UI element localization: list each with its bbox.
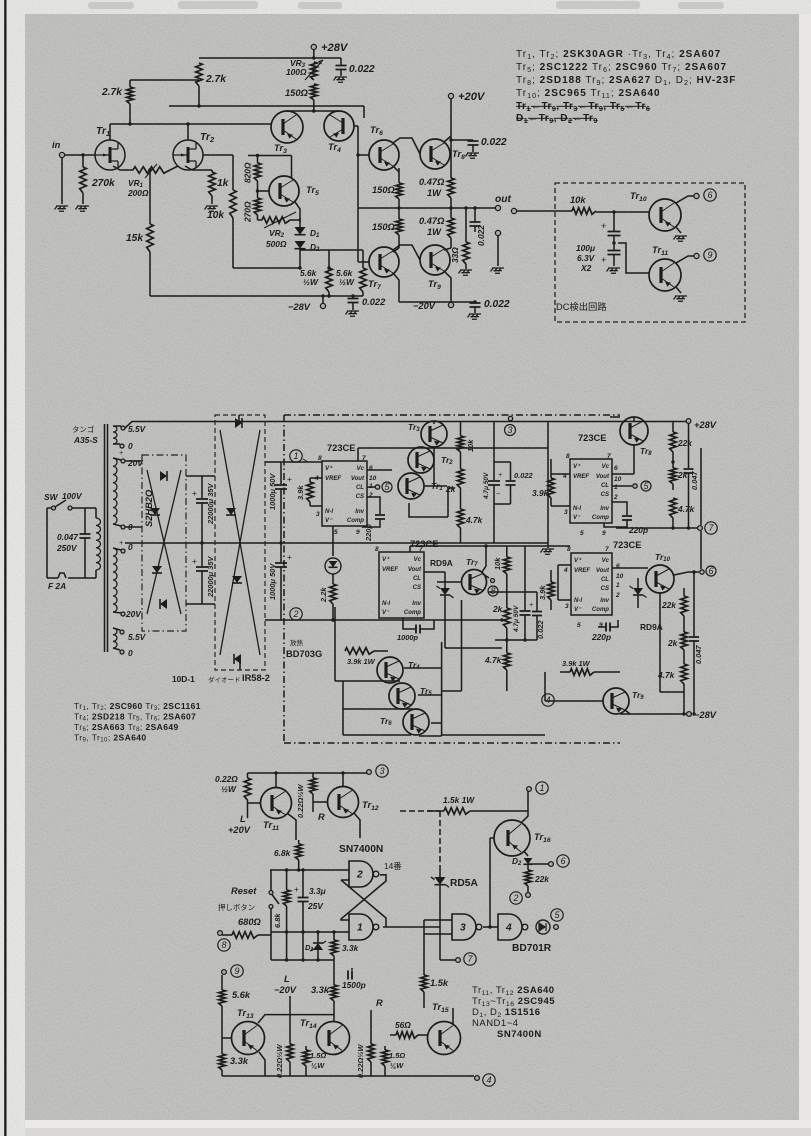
svg-text:2k: 2k (445, 484, 456, 494)
transistor PSU Tr2 (408, 447, 434, 473)
svg-text:20V: 20V (125, 609, 142, 619)
svg-text:3.3μ: 3.3μ (309, 886, 326, 896)
svg-text:CS: CS (413, 585, 421, 591)
transistor Tr10 (649, 199, 681, 231)
svg-text:CL: CL (356, 485, 364, 491)
capacitor 220p upper (612, 502, 627, 515)
top rail y=424 to +28V (248, 421, 688, 423)
svg-text:Inv: Inv (412, 601, 421, 607)
wire Tr7 base from x358 (357, 208, 359, 262)
wire Tr11 base/emitter legs (248, 802, 262, 804)
wire Tr6 base (358, 154, 369, 156)
svg-text:Tr1: Tr1 (96, 126, 110, 138)
wire hook down at x=364 (363, 106, 365, 118)
resistor 15k (147, 224, 154, 252)
svg-text:0.22Ω½W: 0.22Ω½W (296, 784, 305, 818)
svg-text:0.047: 0.047 (694, 645, 703, 664)
svg-text:1.5k 1W: 1.5k 1W (443, 795, 475, 805)
right rail x=701 (700, 448, 702, 525)
wire node4 dash (542, 694, 554, 706)
wire Tr5 base (258, 190, 270, 192)
resistor 4.7k right upper (670, 498, 677, 518)
svg-text:10k: 10k (466, 439, 475, 452)
svg-text:33Ω: 33Ω (450, 247, 460, 263)
resistor 4.7k lower right (681, 664, 688, 684)
svg-text:0.047: 0.047 (690, 471, 699, 490)
svg-text:22k: 22k (661, 600, 676, 610)
wire IC1 left pins (310, 477, 322, 479)
transistor PSU Tr10 (646, 565, 674, 593)
svg-text:10k: 10k (570, 195, 586, 205)
transistor PSU Tr7 (462, 570, 487, 595)
svg-text:6: 6 (616, 563, 620, 570)
svg-text:L: L (284, 974, 290, 984)
svg-text:5: 5 (580, 530, 584, 537)
svg-text:+: + (601, 221, 606, 231)
wire node4 bottom (470, 1075, 474, 1077)
resistor 4.7k lower-left (504, 653, 511, 670)
svg-text:2k: 2k (492, 604, 503, 614)
diode D1 (299, 218, 301, 227)
resistor 2k psu left (457, 469, 464, 488)
bridge2 diode network (220, 430, 260, 655)
svg-text:6: 6 (614, 465, 618, 472)
wire Tr5 emitter to diode column (295, 202, 300, 222)
capacitor 1000p at IC3 (403, 618, 416, 629)
wire Tr9 emitter to -28V rail (625, 710, 630, 714)
wire psu lower-left cluster (334, 607, 336, 681)
svg-text:10: 10 (616, 573, 624, 580)
wire Tr7 collector to Tr9 base (393, 245, 420, 260)
wire Tr8 to rail (633, 417, 635, 422)
svg-text:0.022: 0.022 (481, 137, 507, 148)
wire Tr10 collector to pin6 (676, 196, 694, 203)
svg-text:9: 9 (602, 530, 606, 537)
terminal node5 at IC1 (367, 486, 375, 488)
wire y546 rail (410, 545, 570, 547)
electrolytic 4.7u 50V upper (493, 422, 495, 463)
svg-text:3.3k: 3.3k (230, 1056, 249, 1066)
resistor 3.3k bottom left (221, 1050, 223, 1054)
NAND gate 3 (452, 914, 476, 940)
resistor 3.9k at IC1 (309, 478, 311, 482)
capacitor 0.047 250V line filter (84, 508, 86, 534)
wire Tr6 emitter to 150 (393, 166, 399, 172)
wire Tr8 collector (444, 136, 451, 142)
svg-text:Comp: Comp (592, 607, 609, 613)
resistor 22k psu right upper (672, 422, 674, 433)
svg-text:250V: 250V (56, 543, 78, 553)
wire Tr1 drain up (109, 124, 111, 140)
diode D2 (295, 241, 306, 249)
svg-text:2k: 2k (667, 638, 678, 648)
wire Tr9 emitter down (444, 271, 451, 302)
zener D1 prot (317, 932, 319, 943)
regulator area dash-dot boundary top (284, 414, 620, 416)
svg-text:1.5k: 1.5k (430, 978, 449, 988)
bottom negative rail y=296 (150, 295, 363, 297)
resistor 10k DC det (572, 208, 596, 215)
svg-text:0.022: 0.022 (349, 64, 375, 75)
svg-text:3.3k: 3.3k (311, 985, 330, 995)
fuse F 2A (58, 573, 66, 578)
wire bridge2 out top (265, 461, 281, 463)
node 1 wire (281, 461, 322, 463)
AC input circuit box (46, 508, 48, 578)
svg-text:+: + (294, 884, 299, 894)
resistor 0.47 ohm 1W lower (448, 218, 455, 238)
wire Tr13 base leg (222, 1038, 232, 1050)
terminal node2 bottom (526, 893, 531, 898)
ground Tr10 emitter (676, 227, 681, 233)
capacitor 0.022 output zobel (474, 208, 476, 222)
svg-text:56Ω: 56Ω (395, 1020, 411, 1030)
svg-text:+: + (119, 538, 123, 547)
svg-text:3: 3 (507, 425, 512, 435)
svg-text:DC検出回路: DC検出回路 (556, 301, 607, 312)
transistor Tr7 (369, 247, 399, 277)
svg-text:Tr1, Tr2; 2SK30AGR ·Tr3, Tr4;: Tr1, Tr2; 2SK30AGR ·Tr3, Tr4; 2SA607 (516, 49, 721, 61)
zener RD5A (439, 868, 441, 877)
svg-text:2k: 2k (677, 470, 688, 480)
svg-text:6: 6 (369, 465, 373, 472)
svg-text:A35-S: A35-S (73, 435, 98, 445)
wire y=106 bus (169, 105, 364, 107)
svg-text:Reset: Reset (231, 886, 257, 896)
cross-coupling wires (341, 875, 386, 920)
svg-text:+: + (192, 488, 197, 498)
wire Tr11 base (618, 243, 649, 273)
wire lower bus y=592 (488, 591, 525, 593)
svg-text:Vout: Vout (596, 474, 610, 480)
wire Tr4 right to x358 (354, 125, 358, 127)
svg-text:Tr5; 2SC1222 Tr6; 2SC960 Tr7: Tr5; 2SC1222 Tr6; 2SC960 Tr7; 2SA607 (516, 62, 727, 74)
capacitor 220p at IC1 (367, 497, 380, 514)
wire Tr15 collector up (452, 1008, 454, 1024)
svg-text:+: + (601, 255, 606, 265)
svg-text:X2: X2 (580, 263, 592, 273)
transistor Tr14 (317, 1022, 350, 1055)
svg-text:7: 7 (605, 546, 609, 553)
svg-text:22000μ 35V: 22000μ 35V (206, 482, 215, 525)
wire NAND1 output right (383, 926, 440, 928)
svg-text:+28V: +28V (694, 420, 717, 430)
FET Tr1 (95, 140, 125, 170)
wire top bus y=80 (130, 79, 199, 81)
top rail y=773 (248, 772, 368, 774)
electrolytic 3.3u 25V (302, 870, 304, 897)
transistor Tr12 prot (328, 787, 359, 818)
svg-text:723CE: 723CE (410, 539, 438, 549)
svg-text:IR58-2: IR58-2 (242, 673, 270, 683)
capacitor 1500p (351, 968, 353, 970)
pot VR1 200 ohm between Tr1/Tr2 (113, 166, 133, 170)
svg-text:V⁺: V⁺ (325, 465, 333, 472)
svg-text:−20V: −20V (274, 985, 297, 995)
svg-text:−28V: −28V (288, 302, 311, 312)
svg-text:10: 10 (614, 476, 622, 483)
svg-text:Vc: Vc (602, 558, 610, 564)
svg-text:1: 1 (616, 582, 620, 589)
node7 rail (616, 527, 697, 529)
wire RD5A top dash link (400, 810, 440, 812)
svg-text:9: 9 (599, 622, 603, 629)
wire top bus y=124 (110, 123, 271, 125)
svg-text:Tr10; 2SC965 Tr11; 2SA640: Tr10; 2SC965 Tr11; 2SA640 (516, 88, 661, 100)
svg-text:½W: ½W (303, 277, 319, 287)
wire VR2 right to diode column (290, 219, 300, 221)
wire bottom bus regulators (442, 734, 545, 736)
svg-text:BD701R: BD701R (512, 943, 552, 954)
NAND gate 4 (498, 914, 522, 940)
wire Tr16 collector (521, 811, 528, 823)
electrolytic 22000u 35V lower (201, 543, 203, 566)
svg-text:3.3k: 3.3k (342, 943, 359, 953)
node 3 terminal (508, 416, 512, 420)
svg-text:2.2k: 2.2k (319, 587, 328, 603)
top edge faint print-through smudges (88, 1, 724, 9)
wire feedback bus y=268 (233, 267, 300, 269)
wire Tr12 emitter (354, 813, 360, 838)
wire Tr11 collector to pin9 (676, 256, 694, 263)
svg-text:2: 2 (292, 609, 298, 619)
wire IC4 pin6 to Tr10 (612, 567, 648, 569)
svg-text:5: 5 (577, 622, 581, 629)
terminal node6 bottom (528, 863, 548, 865)
terminal -28V (322, 296, 324, 304)
resistor 820 ohm (257, 156, 259, 164)
wire right rail join (660, 691, 684, 693)
wire out to DC detector (511, 208, 516, 213)
svg-text:2.7k: 2.7k (205, 74, 227, 85)
transistor Tr9 (420, 245, 450, 275)
resistor 2k lower-left (504, 608, 511, 628)
resistor 6.8k second (286, 870, 288, 890)
wire Tr2 source to 1k (185, 166, 212, 170)
svg-text:V⁺: V⁺ (574, 557, 582, 564)
svg-text:Inv: Inv (600, 598, 609, 604)
wire 150 to Tr7 (393, 248, 399, 252)
svg-text:Vc: Vc (602, 464, 610, 470)
transformer core (104, 424, 106, 652)
svg-text:V⁻: V⁻ (382, 610, 390, 616)
svg-text:4.7k: 4.7k (465, 515, 483, 525)
svg-text:SN7400N: SN7400N (339, 844, 383, 855)
svg-text:Tr8; 2SD188 Tr9; 2SA627 D1,: Tr8; 2SD188 Tr9; 2SA627 D1, D2; HV-23F (516, 75, 736, 87)
svg-text:200Ω: 200Ω (127, 188, 149, 198)
transistor PSU Tr5 (389, 683, 415, 709)
bottom bus of latch (271, 959, 334, 961)
svg-text:Inv: Inv (600, 506, 609, 512)
wire 20V+ tap to bridge1 (125, 460, 142, 462)
transformer secondary 20V upper (113, 458, 117, 524)
resistor 5.6k half-watt right (362, 250, 364, 268)
svg-text:270Ω: 270Ω (243, 201, 253, 223)
wire y155 rail to Tr5 collector (248, 155, 292, 157)
svg-text:220p: 220p (591, 632, 611, 642)
wire Tr13 emitter to rail (259, 1052, 265, 1076)
wire Tr7 base (437, 581, 462, 583)
transistor Tr15 (428, 1022, 461, 1055)
svg-text:1: 1 (614, 484, 618, 491)
svg-text:6.3V: 6.3V (577, 253, 596, 263)
svg-text:150Ω: 150Ω (285, 88, 309, 98)
svg-text:8: 8 (567, 546, 571, 553)
svg-text:4.7μ 50V: 4.7μ 50V (513, 605, 520, 633)
svg-text:0.47Ω: 0.47Ω (419, 216, 445, 226)
LED indicator (332, 526, 334, 556)
transformer primary winding (95, 508, 97, 518)
svg-text:0.022: 0.022 (536, 620, 545, 639)
svg-text:タンゴ: タンゴ (72, 424, 94, 434)
svg-text:0.047: 0.047 (57, 532, 78, 542)
svg-text:0.47Ω: 0.47Ω (419, 177, 445, 187)
svg-text:680Ω: 680Ω (238, 917, 262, 927)
electrolytic 4.7u lower (524, 546, 526, 592)
transistor Tr3 (271, 111, 303, 143)
resistor 2.2k below LED (332, 574, 334, 584)
terminal node8 bottom (218, 931, 223, 936)
svg-text:BD703G: BD703G (286, 649, 322, 659)
transformer secondary 5.5V bottom (113, 628, 117, 648)
svg-text:1000p: 1000p (397, 633, 419, 642)
capacitor 0.022 bottom left (352, 296, 354, 298)
zener RD9A left (424, 571, 445, 573)
svg-text:4.7μ 50V: 4.7μ 50V (483, 472, 490, 500)
bottom rail protection (222, 1075, 470, 1077)
svg-text:5: 5 (334, 529, 338, 536)
svg-text:2: 2 (512, 893, 518, 903)
terminal +28V (313, 50, 315, 59)
svg-text:Inv: Inv (355, 509, 364, 515)
svg-text:Vout: Vout (351, 476, 365, 482)
regulator area dash-dot boundary left (283, 415, 285, 743)
svg-text:1W: 1W (427, 188, 442, 198)
terminal +20V top (448, 93, 453, 98)
svg-text:VREF: VREF (325, 476, 341, 482)
svg-text:CS: CS (601, 586, 609, 592)
svg-text:1.5Ω: 1.5Ω (389, 1051, 405, 1060)
svg-text:270k: 270k (91, 178, 116, 189)
svg-text:10k: 10k (207, 210, 225, 221)
wire 5.5V top to rail (125, 422, 248, 429)
resistor 6.8k upper (298, 840, 300, 844)
svg-text:V⁻: V⁻ (574, 607, 582, 613)
wire 20V 0 tap to bridge1 (125, 526, 142, 528)
transistor Tr16 (494, 820, 530, 856)
resistor 5.6k half-watt left (328, 250, 330, 268)
wire lower bus y=640 (495, 639, 537, 641)
transistor Tr5 (269, 176, 299, 206)
wire y250 into 5.6k pair (300, 249, 363, 251)
wire LED bottom to node2 rail (331, 618, 334, 621)
FET Tr2 (173, 140, 203, 170)
svg-text:CL: CL (601, 577, 609, 583)
svg-text:Vc: Vc (414, 557, 422, 563)
svg-text:8: 8 (318, 455, 322, 462)
svg-text:22k: 22k (534, 874, 549, 884)
svg-text:10D-1: 10D-1 (172, 674, 195, 684)
svg-text:10: 10 (369, 475, 377, 482)
svg-text:0.022: 0.022 (484, 299, 510, 310)
electrolytic 1000u 50V upper (280, 462, 282, 484)
wire IC1 top pin7 (357, 448, 359, 461)
wire gate3 to gate4 (483, 926, 498, 928)
wire Tr7 emitter down (393, 273, 399, 302)
wire bridge1 outputs (186, 475, 215, 477)
gate input rail y=870 (270, 869, 349, 871)
wire 0.47 to Tr9 (444, 248, 451, 250)
svg-text:15k: 15k (126, 233, 144, 244)
transistor PSU Tr6 (403, 709, 429, 735)
wire IC1 pin6 out (367, 469, 392, 471)
svg-text:押しボタン: 押しボタン (218, 902, 255, 912)
svg-text:1: 1 (293, 451, 298, 461)
svg-text:3.9k: 3.9k (538, 585, 547, 600)
svg-text:VREF: VREF (573, 474, 589, 480)
svg-text:220p: 220p (364, 524, 373, 542)
svg-text:6.8k: 6.8k (273, 913, 282, 928)
svg-text:6: 6 (560, 856, 565, 866)
svg-text:CL: CL (413, 576, 421, 582)
svg-text:1k: 1k (217, 178, 230, 189)
svg-text:6: 6 (707, 190, 712, 200)
wire Tr3-Tr4 top join (287, 110, 339, 112)
wire Tr9 base left (545, 700, 603, 702)
svg-text:2: 2 (356, 870, 363, 881)
svg-text:Comp: Comp (404, 610, 421, 616)
transistor PSU Tr9 (603, 688, 629, 714)
svg-text:3.9k: 3.9k (532, 488, 549, 498)
svg-text:F 2A: F 2A (48, 581, 66, 591)
IC 723CE upper-left box (322, 461, 367, 526)
resistor 33 ohm (465, 208, 467, 242)
svg-text:6.8k: 6.8k (274, 848, 291, 858)
wire -20V feed (289, 996, 291, 1028)
svg-text:820Ω: 820Ω (243, 162, 253, 183)
svg-text:7: 7 (362, 455, 366, 462)
svg-text:Tr1←Tr9, Tr3←Tr9, Tr5←Tr6: Tr1←Tr9, Tr3←Tr9, Tr5←Tr6 (516, 101, 650, 113)
trimmer VR3 100 ohm (311, 62, 318, 80)
svg-text:8: 8 (221, 940, 226, 950)
svg-text:2: 2 (615, 592, 620, 599)
svg-text:1: 1 (357, 923, 363, 934)
svg-text:9: 9 (707, 250, 712, 260)
wire Tr7 collector up (482, 546, 486, 572)
svg-text:3: 3 (564, 509, 568, 516)
svg-text:R: R (376, 998, 383, 1008)
resistor 0.22 ohm top-left (247, 773, 249, 778)
wire bottom right rail (399, 301, 475, 303)
bridge rectifier S2HB2O box (142, 455, 186, 631)
transistor PSU Tr8 (620, 417, 648, 445)
capacitor 0.022 psu upper (510, 462, 512, 480)
svg-text:+: + (119, 448, 123, 457)
transistor PSU Tr3 (421, 421, 447, 447)
terminal pin6 (694, 193, 699, 198)
svg-text:+: + (498, 470, 502, 479)
capacitor 220p lower (598, 626, 606, 628)
svg-text:150Ω: 150Ω (372, 222, 396, 232)
wire Tr2 gate to 10k (203, 154, 233, 156)
svg-text:723CE: 723CE (613, 540, 641, 550)
svg-text:N-I: N-I (574, 598, 582, 604)
svg-text:0: 0 (128, 441, 133, 451)
electrolytic 22000u 35V upper (201, 476, 203, 498)
svg-text:N-I: N-I (382, 601, 390, 607)
svg-text:1000μ 50V: 1000μ 50V (268, 563, 277, 600)
svg-text:L: L (240, 814, 246, 824)
